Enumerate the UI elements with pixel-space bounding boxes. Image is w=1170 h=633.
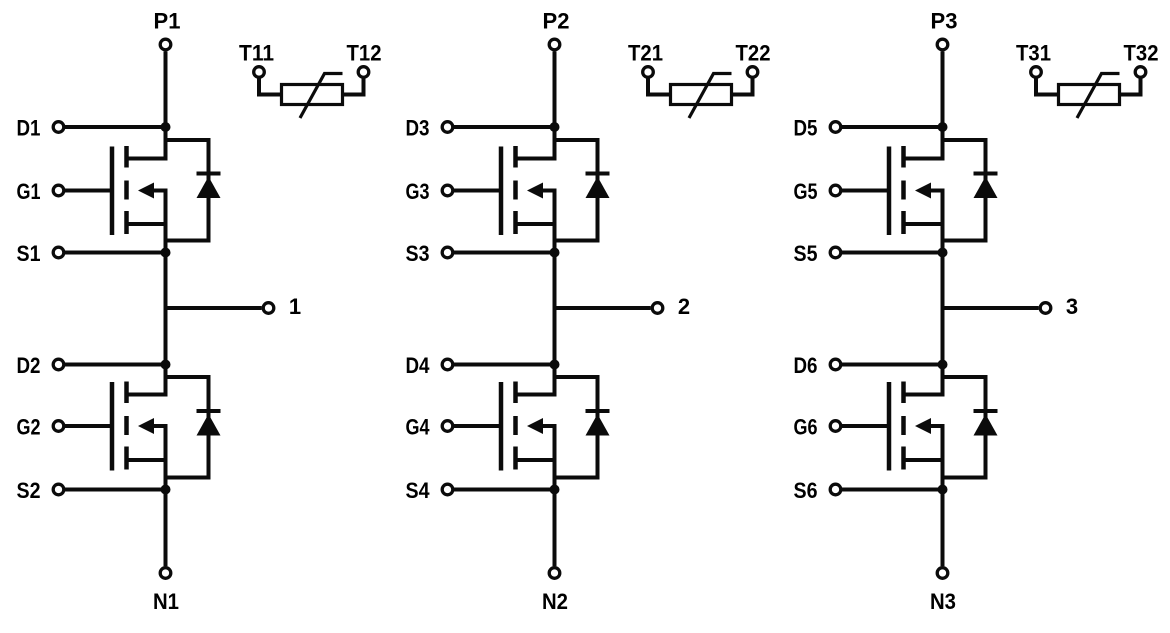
svg-text:P3: P3 [931, 8, 958, 33]
node S5 junction dot [938, 248, 948, 258]
wire T12 to thermistor [343, 78, 364, 94]
Q3 channel source segment [513, 211, 518, 234]
Q4 body arrow (N-channel) [527, 418, 543, 434]
Q5 channel source segment [901, 211, 906, 234]
svg-text:G5: G5 [794, 179, 818, 204]
svg-text:N1: N1 [153, 589, 179, 614]
Q5 channel drain segment [901, 146, 906, 168]
wire Q6 body stub to source stub [904, 426, 943, 460]
svg-text:D5: D5 [794, 116, 818, 141]
Q1 channel source segment [124, 211, 129, 234]
wire bus drain to Q2 drain stub [127, 365, 166, 395]
body diode of Q4 cathode bar [586, 409, 610, 413]
wire T22 to thermistor [732, 78, 753, 94]
Q5 gate plate [887, 147, 892, 236]
wire S2 to bus [65, 488, 166, 492]
svg-text:D6: D6 [794, 353, 818, 378]
node D4 junction dot [550, 360, 560, 370]
wire body-diode branch of Q2 [166, 377, 209, 478]
terminal T32 circle [1135, 67, 1146, 78]
Q4 channel source segment [513, 447, 518, 470]
wire bus S1 to D2 [164, 253, 168, 365]
Q3 gate plate [499, 147, 504, 236]
wire Q4 body stub to source stub [516, 426, 555, 460]
body diode of Q3 cathode bar [586, 172, 610, 176]
terminal G4 circle [442, 421, 453, 432]
svg-text:2: 2 [678, 294, 690, 319]
node S6 junction dot [938, 485, 948, 495]
wire P3 bus top [941, 51, 945, 127]
wire D1 to bus [65, 125, 166, 129]
wire bus source stub down to S4 line [553, 460, 557, 490]
svg-text:T31: T31 [1016, 40, 1051, 65]
svg-text:P2: P2 [543, 8, 570, 33]
wire T21 to thermistor [648, 78, 671, 94]
body diode of Q4 anode triangle [586, 414, 610, 436]
wire bus drain to Q4 drain stub [516, 365, 555, 395]
body diode of Q5 cathode bar [974, 172, 998, 176]
wire P1 bus top [164, 51, 168, 127]
wire S3 to bus [454, 251, 555, 255]
terminal D3 circle [442, 122, 453, 133]
svg-text:S1: S1 [17, 241, 41, 266]
terminal T21 circle [643, 67, 654, 78]
Q2 gate plate [110, 382, 115, 471]
wire bus drain to Q1 drain stub [127, 127, 166, 159]
wire bus source stub down to S5 line [941, 224, 945, 253]
wire bus source stub down to S6 line [941, 460, 945, 490]
thermistor RT1 diagonal stroke [300, 74, 343, 119]
node D2 junction dot [161, 360, 171, 370]
Q5 body arrow (N-channel) [915, 183, 931, 199]
svg-text:S4: S4 [406, 478, 431, 503]
wire D2 to bus [65, 363, 166, 367]
svg-text:D1: D1 [17, 116, 41, 141]
node S3 junction dot [550, 248, 560, 258]
Q4 channel body segment [513, 416, 518, 435]
wire S6 to bus [842, 488, 943, 492]
wire Q3 body stub to source stub [516, 191, 555, 225]
Q1 body arrow (N-channel) [138, 183, 154, 199]
svg-text:1: 1 [289, 294, 301, 319]
terminal S4 circle [442, 484, 453, 495]
wire D6 to bus [842, 363, 943, 367]
wire S1 to bus [65, 251, 166, 255]
wire bus bottom to N3 [941, 490, 945, 567]
svg-text:G2: G2 [17, 415, 41, 440]
wire G3 to gate plate [454, 189, 501, 193]
node S4 junction dot [550, 485, 560, 495]
Q5 channel body segment [901, 181, 906, 200]
wire bus drain to Q3 drain stub [516, 127, 555, 159]
svg-text:T21: T21 [628, 40, 663, 65]
svg-text:S3: S3 [406, 241, 430, 266]
Q6 channel drain segment [901, 382, 906, 404]
terminal G2 circle [53, 421, 64, 432]
wire G5 to gate plate [842, 189, 889, 193]
svg-text:D2: D2 [17, 353, 41, 378]
Q2 channel body segment [124, 416, 129, 435]
node D6 junction dot [938, 360, 948, 370]
Q3 channel drain segment [513, 146, 518, 168]
svg-text:P1: P1 [154, 8, 181, 33]
wire G2 to gate plate [65, 424, 112, 428]
Q2 channel source segment [124, 447, 129, 470]
Q6 channel body segment [901, 416, 906, 435]
terminal N2 circle [549, 568, 560, 579]
Q1 channel drain segment [124, 146, 129, 168]
wire D5 to bus [842, 125, 943, 129]
terminal G3 circle [442, 185, 453, 196]
wire bus source stub down to S3 line [553, 224, 557, 253]
terminal D5 circle [830, 122, 841, 133]
body diode of Q2 anode triangle [197, 414, 221, 436]
terminal G6 circle [830, 421, 841, 432]
node 1 output circle [263, 303, 274, 314]
terminal D1 circle [53, 122, 64, 133]
terminal S1 circle [53, 247, 64, 258]
wire bus source stub down to S2 line [164, 460, 168, 490]
wire bus S5 to D6 [941, 253, 945, 365]
Q2 body arrow (N-channel) [138, 418, 154, 434]
wire bus drain to Q5 drain stub [904, 127, 943, 159]
svg-text:D4: D4 [406, 353, 431, 378]
svg-text:S5: S5 [794, 241, 818, 266]
terminal D2 circle [53, 359, 64, 370]
wire bus source stub down to S1 line [164, 224, 168, 253]
Q6 gate plate [887, 382, 892, 471]
wire G1 to gate plate [65, 189, 112, 193]
terminal P1 circle [160, 39, 171, 50]
wire Q1 body stub to source stub [127, 191, 166, 225]
svg-text:N3: N3 [930, 589, 956, 614]
svg-text:T32: T32 [1124, 40, 1159, 65]
terminal S6 circle [830, 484, 841, 495]
Q3 channel body segment [513, 181, 518, 200]
wire body-diode branch of Q1 [166, 140, 209, 241]
wire D3 to bus [454, 125, 555, 129]
wire Q5 body stub to source stub [904, 191, 943, 225]
svg-text:3: 3 [1066, 294, 1078, 319]
wire phase output 3 [943, 306, 1039, 310]
Q1 gate plate [110, 147, 115, 236]
svg-text:T12: T12 [347, 40, 382, 65]
svg-text:N2: N2 [542, 589, 568, 614]
terminal P3 circle [937, 39, 948, 50]
Q4 gate plate [499, 382, 504, 471]
wire S4 to bus [454, 488, 555, 492]
terminal T12 circle [358, 67, 369, 78]
node 3 output circle [1040, 303, 1051, 314]
body diode of Q3 anode triangle [586, 177, 610, 199]
node S1 junction dot [161, 248, 171, 258]
terminal N1 circle [160, 568, 171, 579]
svg-text:T22: T22 [736, 40, 771, 65]
node D5 junction dot [938, 122, 948, 132]
terminal T31 circle [1031, 67, 1042, 78]
wire phase output 2 [555, 306, 651, 310]
wire bus bottom to N2 [553, 490, 557, 567]
terminal N3 circle [937, 568, 948, 579]
terminal S3 circle [442, 247, 453, 258]
wire T11 to thermistor [259, 78, 282, 94]
terminal D6 circle [830, 359, 841, 370]
body diode of Q1 anode triangle [197, 177, 221, 199]
svg-text:G3: G3 [406, 179, 430, 204]
body diode of Q5 anode triangle [974, 177, 998, 199]
terminal G1 circle [53, 185, 64, 196]
svg-text:G6: G6 [794, 415, 818, 440]
thermistor RT1 body [282, 85, 343, 105]
wire T32 to thermistor [1120, 78, 1141, 94]
Q4 channel drain segment [513, 382, 518, 404]
svg-text:G4: G4 [406, 415, 431, 440]
wire bus drain to Q6 drain stub [904, 365, 943, 395]
wire P2 bus top [553, 51, 557, 127]
thermistor RT3 diagonal stroke [1077, 74, 1120, 119]
thermistor RT2 body [671, 85, 732, 105]
svg-text:T11: T11 [239, 40, 274, 65]
node D1 junction dot [161, 122, 171, 132]
terminal T22 circle [747, 67, 758, 78]
wire body-diode branch of Q5 [943, 140, 986, 241]
terminal T11 circle [254, 67, 265, 78]
wire Q2 body stub to source stub [127, 426, 166, 460]
thermistor RT2 diagonal stroke [689, 74, 732, 119]
Q3 body arrow (N-channel) [527, 183, 543, 199]
wire phase output 1 [166, 306, 262, 310]
wire D4 to bus [454, 363, 555, 367]
wire T31 to thermistor [1036, 78, 1059, 94]
body diode of Q1 cathode bar [197, 172, 221, 176]
svg-text:D3: D3 [406, 116, 430, 141]
wire S5 to bus [842, 251, 943, 255]
body diode of Q2 cathode bar [197, 409, 221, 413]
terminal D4 circle [442, 359, 453, 370]
node 2 output circle [652, 303, 663, 314]
svg-text:S6: S6 [794, 478, 818, 503]
svg-text:G1: G1 [17, 179, 41, 204]
wire bus S3 to D4 [553, 253, 557, 365]
wire body-diode branch of Q4 [555, 377, 598, 478]
Q6 body arrow (N-channel) [915, 418, 931, 434]
Q2 channel drain segment [124, 382, 129, 404]
Q6 channel source segment [901, 447, 906, 470]
terminal S2 circle [53, 484, 64, 495]
terminal S5 circle [830, 247, 841, 258]
terminal G5 circle [830, 185, 841, 196]
svg-text:S2: S2 [17, 478, 41, 503]
body diode of Q6 cathode bar [974, 409, 998, 413]
wire body-diode branch of Q6 [943, 377, 986, 478]
wire bus bottom to N1 [164, 490, 168, 567]
node S2 junction dot [161, 485, 171, 495]
Q1 channel body segment [124, 181, 129, 200]
body diode of Q6 anode triangle [974, 414, 998, 436]
terminal P2 circle [549, 39, 560, 50]
node D3 junction dot [550, 122, 560, 132]
wire G4 to gate plate [454, 424, 501, 428]
wire G6 to gate plate [842, 424, 889, 428]
thermistor RT3 body [1059, 85, 1120, 105]
wire body-diode branch of Q3 [555, 140, 598, 241]
